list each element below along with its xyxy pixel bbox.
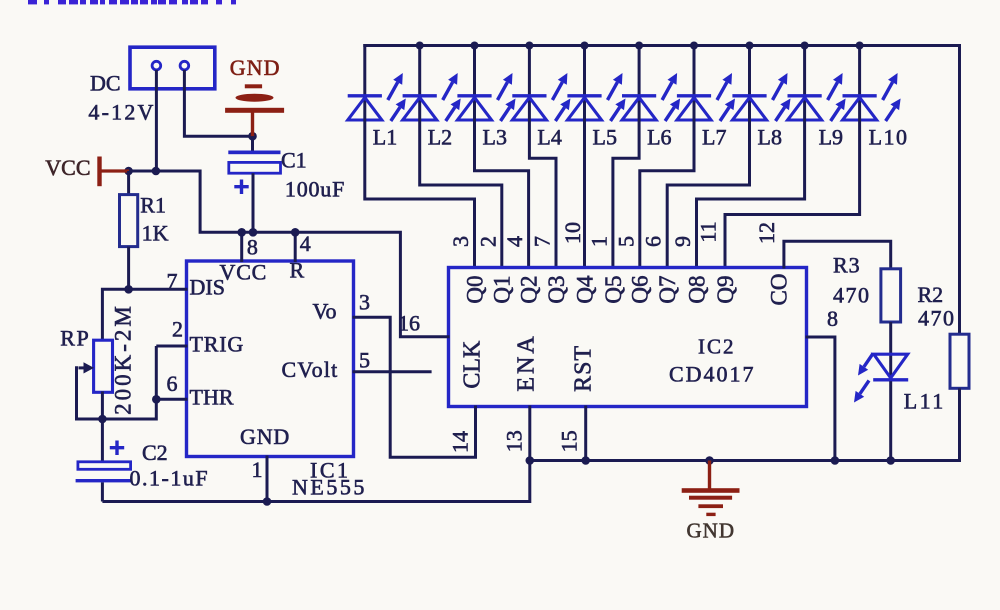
label THR (pin 6) <box>190 385 234 410</box>
junction dot RP bottom <box>98 415 107 424</box>
pin number 1 label (Q5) <box>586 236 611 247</box>
pin label CLK of IC2 <box>460 340 486 389</box>
svg-text:10: 10 <box>560 222 585 244</box>
label IC1 <box>310 458 351 483</box>
svg-text:L1: L1 <box>373 125 397 150</box>
pin label Q9 of IC2 <box>713 275 738 303</box>
svg-text:5: 5 <box>359 348 370 373</box>
pin label RST of IC2 <box>570 345 596 392</box>
svg-text:L10: L10 <box>869 125 909 150</box>
pin number 4 label (Q2) <box>502 236 527 247</box>
pin number 13 label <box>502 430 527 452</box>
label L10 <box>869 125 909 150</box>
wire R pin 4 of NE555 <box>294 232 297 262</box>
pin label Q0 of IC2 <box>462 275 487 303</box>
label R3 <box>833 253 861 278</box>
svg-text:1K: 1K <box>142 221 169 246</box>
label CVolt (pin 5) <box>282 357 339 382</box>
pin label CO of IC2 <box>766 274 791 306</box>
svg-text:RP: RP <box>60 326 90 351</box>
wire LED L1 column from bus <box>363 44 366 96</box>
wire CVolt pin 5 stub <box>353 370 432 373</box>
resistor R3 <box>881 269 901 322</box>
capacitor C1 <box>228 136 280 232</box>
wire LED L9 column from bus <box>803 44 806 96</box>
pin number 11 label (Q9) <box>696 221 721 242</box>
svg-text:15: 15 <box>557 430 582 452</box>
svg-text:Q2: Q2 <box>516 275 541 303</box>
wire LED L10 column from bus <box>858 44 861 96</box>
junction dot DIS <box>124 285 133 294</box>
wire IC2 pin 8 VSS to ground rail <box>806 337 835 461</box>
pin label Q2 of IC2 <box>516 275 541 303</box>
label C1 <box>281 148 307 173</box>
svg-text:L3: L3 <box>483 125 507 150</box>
svg-text:R: R <box>290 257 305 282</box>
wire DIS junction to RP <box>102 289 128 339</box>
label L9 <box>819 125 843 150</box>
connector DC input <box>130 47 215 89</box>
label L5 <box>593 125 617 150</box>
wire DC right pin to GND node <box>184 70 252 136</box>
wire LED L8 to IC2 pin 6 <box>667 119 749 269</box>
pin number 3 label <box>359 290 370 315</box>
label R (pin 4 of NE555) <box>290 257 305 282</box>
svg-text:Q9: Q9 <box>713 275 738 303</box>
svg-text:RST: RST <box>570 345 596 392</box>
wire VCC rail to NE555 and CD4017 pin 16 <box>129 171 450 337</box>
svg-text:CLK: CLK <box>460 340 486 389</box>
svg-text:NE555: NE555 <box>292 475 367 500</box>
svg-text:GND: GND <box>687 519 736 543</box>
LED L6 <box>622 73 680 121</box>
potentiometer RP <box>77 340 113 419</box>
svg-text:470: 470 <box>833 283 871 308</box>
label R1 <box>140 193 166 218</box>
pin label Q1 of IC2 <box>490 275 515 303</box>
label 4-12V <box>88 100 155 125</box>
wire THR pin 6 <box>156 398 187 401</box>
wire R2 to ground rail <box>958 388 961 462</box>
svg-text:Q8: Q8 <box>684 275 709 303</box>
svg-text:L7: L7 <box>702 125 726 150</box>
label GND (top) <box>230 55 281 80</box>
label DIS (pin 7) <box>190 275 225 300</box>
svg-text:CD4017: CD4017 <box>669 362 756 387</box>
pin number 3 label (Q0) <box>448 236 473 247</box>
svg-text:Q4: Q4 <box>572 275 597 304</box>
wire LED L6 to IC2 pin 1 <box>613 119 639 269</box>
label 1K <box>142 221 169 246</box>
svg-text:9: 9 <box>670 236 695 247</box>
pin number 16 label (IC2 VDD) <box>398 311 420 336</box>
pin label Q6 of IC2 <box>628 275 653 303</box>
resistor R2 <box>950 334 969 388</box>
label L7 <box>702 125 726 150</box>
pin number 7 label (Q3) <box>530 236 555 247</box>
svg-text:4-12V: 4-12V <box>88 100 155 125</box>
label RP <box>60 326 90 351</box>
pin label Q4 of IC2 <box>572 275 597 304</box>
label VCC (pin 8 of NE555) <box>220 260 268 285</box>
svg-text:L11: L11 <box>904 389 946 414</box>
pin number 10 label (Q4) <box>560 222 585 244</box>
svg-text:ENA: ENA <box>514 333 540 391</box>
pin number 5 label <box>359 348 370 373</box>
pin number 2 label <box>172 317 183 342</box>
svg-text:2: 2 <box>475 236 500 247</box>
wire LED L3 column from bus <box>473 44 476 96</box>
svg-text:470: 470 <box>918 306 956 331</box>
wire RST pin 15 to ground rail <box>584 406 587 461</box>
label NE555 <box>292 475 367 500</box>
LED L4 <box>512 73 570 121</box>
wire DC left pin to VCC rail <box>155 70 158 171</box>
svg-text:Q1: Q1 <box>490 275 515 303</box>
svg-text:VCC: VCC <box>45 155 90 180</box>
pin number 14 label <box>448 431 473 453</box>
LED L7 <box>677 73 735 121</box>
pin number 2 label (Q1) <box>475 236 500 247</box>
svg-text:C2: C2 <box>142 440 168 465</box>
label R2 <box>918 282 944 307</box>
wire Vo pin 3 to CLK pin 14 <box>353 317 476 457</box>
junction dots on VCC rail <box>124 167 299 237</box>
svg-text:L5: L5 <box>593 125 617 150</box>
wire GND pin 1 to ground line <box>266 456 269 502</box>
svg-text:C1: C1 <box>281 148 307 173</box>
svg-text:VCC: VCC <box>220 260 268 285</box>
wire LED L3 to IC2 pin 4 <box>475 119 529 269</box>
svg-text:DIS: DIS <box>190 275 225 300</box>
ground symbol GND (top) <box>225 84 284 136</box>
label DC <box>90 70 121 95</box>
LED L1 <box>348 73 406 121</box>
svg-text:7: 7 <box>167 269 178 294</box>
wire ENA pin 13 to ground rail <box>528 406 531 461</box>
label Vo (pin 3) <box>313 299 337 324</box>
wire top LED bus <box>363 44 959 47</box>
label C2 <box>142 440 168 465</box>
LED L3 <box>457 73 515 121</box>
label GND (pin 1) <box>240 424 290 449</box>
wire LED L2 to IC2 pin 2 <box>420 119 502 269</box>
svg-text:IC2: IC2 <box>698 335 736 359</box>
svg-text:Q3: Q3 <box>544 275 569 303</box>
LED L10 <box>843 73 901 121</box>
LED L11 <box>854 354 908 403</box>
pin number 6 label <box>167 371 178 396</box>
svg-text:GND: GND <box>240 424 290 449</box>
svg-text:12: 12 <box>754 222 779 244</box>
svg-text:2: 2 <box>172 317 183 342</box>
svg-text:200K-2M: 200K-2M <box>110 303 135 415</box>
wire ground rail <box>530 459 960 462</box>
pin label ENA of IC2 <box>514 333 540 391</box>
pin label Q8 of IC2 <box>684 275 709 303</box>
wire LED L5 to IC2 pin 10 <box>583 119 586 269</box>
svg-text:6: 6 <box>641 236 666 247</box>
wire LED L9 to IC2 pin 9 <box>697 119 805 269</box>
svg-text:L9: L9 <box>819 125 843 150</box>
svg-text:L8: L8 <box>758 125 782 150</box>
wire VCC pin 8 of NE555 <box>240 232 243 262</box>
label L3 <box>483 125 507 150</box>
svg-text:L6: L6 <box>647 125 671 150</box>
LED L2 <box>403 73 461 121</box>
svg-text:7: 7 <box>530 236 555 247</box>
wire LED L10 to IC2 pin 11 <box>725 119 860 269</box>
pin number 15 label <box>557 430 582 452</box>
pin label Q3 of IC2 <box>544 275 569 303</box>
label 470 (R3) <box>833 283 871 308</box>
svg-text:Q6: Q6 <box>628 275 653 303</box>
svg-text:5: 5 <box>613 236 638 247</box>
svg-text:L2: L2 <box>428 125 452 150</box>
label 200K-2M <box>110 303 135 415</box>
svg-text:CVolt: CVolt <box>282 357 339 382</box>
pin label Q5 of IC2 <box>601 275 626 303</box>
capacitor C2 <box>76 419 131 502</box>
pin number 8 label (IC2) <box>827 306 838 331</box>
wire LED L5 column from bus <box>583 44 586 96</box>
svg-text:11: 11 <box>696 221 721 242</box>
terminal VCC <box>97 157 129 187</box>
svg-text:Vo: Vo <box>313 299 337 324</box>
IC U2 CD4017 box <box>449 268 807 407</box>
label 100uF <box>285 177 345 202</box>
wire CO pin 12 to R3 <box>784 241 891 268</box>
IC U1 NE555 box <box>187 261 354 457</box>
pin number 9 label (Q8) <box>670 236 695 247</box>
label IC2 <box>698 335 736 359</box>
svg-text:4: 4 <box>502 236 527 247</box>
pin label Q7 of IC2 <box>655 275 680 303</box>
wire L11 to ground rail <box>889 381 892 460</box>
svg-text:100uF: 100uF <box>285 177 345 202</box>
pin number 4 label <box>300 231 311 256</box>
wire LED L1 to IC2 pin 3 <box>365 119 475 269</box>
resistor R1 <box>120 171 138 289</box>
wire LED L2 column from bus <box>418 44 421 96</box>
pin number 8 label <box>247 234 258 259</box>
label 0.1-1uF <box>130 466 210 491</box>
label 470 (R2) <box>918 306 956 331</box>
svg-text:6: 6 <box>167 371 178 396</box>
label L4 <box>537 125 561 150</box>
svg-text:1: 1 <box>252 457 263 482</box>
svg-text:L4: L4 <box>537 125 561 150</box>
wire TRIG pin 2 <box>156 345 187 348</box>
svg-text:1: 1 <box>586 236 611 247</box>
svg-text:8: 8 <box>247 234 258 259</box>
label VCC (net) <box>45 155 90 180</box>
pin number 12 label <box>754 222 779 244</box>
label L8 <box>758 125 782 150</box>
svg-text:14: 14 <box>448 431 473 453</box>
wire LED L7 to IC2 pin 5 <box>640 119 694 269</box>
svg-text:4: 4 <box>300 231 311 256</box>
pin number 7 label <box>167 269 178 294</box>
svg-text:Q5: Q5 <box>601 275 626 303</box>
LED L5 <box>567 73 625 121</box>
junction dots on ground rail <box>526 456 896 465</box>
svg-text:R3: R3 <box>833 253 861 278</box>
ground symbol GND (bottom) <box>682 461 740 517</box>
wire LED L4 to IC2 pin 7 <box>529 119 556 269</box>
label GND (bottom) <box>687 519 736 543</box>
wire TRIG-THR junction to RP <box>102 346 156 419</box>
svg-text:THR: THR <box>190 385 234 410</box>
svg-text:TRIG: TRIG <box>190 331 245 356</box>
clipped title text fragments <box>28 0 236 4</box>
wire LED L7 column from bus <box>693 44 696 96</box>
label L2 <box>428 125 452 150</box>
junction dot pin 1 <box>263 497 272 506</box>
wire LED L4 column from bus <box>528 44 531 96</box>
LED L8 <box>732 73 790 121</box>
pin number 1 label <box>252 457 263 482</box>
svg-text:R1: R1 <box>140 193 166 218</box>
LED L9 <box>788 73 846 121</box>
svg-text:3: 3 <box>359 290 370 315</box>
wire LED L8 column from bus <box>748 44 751 96</box>
svg-text:CO: CO <box>766 274 791 306</box>
wire ground link line <box>102 461 529 502</box>
wire R3 to LED L11 <box>889 322 892 355</box>
svg-text:13: 13 <box>502 430 527 452</box>
svg-text:0.1-1uF: 0.1-1uF <box>130 466 210 491</box>
junction dot THR <box>152 395 161 404</box>
svg-text:3: 3 <box>448 236 473 247</box>
svg-text:GND: GND <box>230 55 281 80</box>
label L6 <box>647 125 671 150</box>
wire LED L6 column from bus <box>638 44 641 96</box>
junction dot GND node <box>248 132 257 141</box>
svg-text:DC: DC <box>90 70 121 95</box>
svg-text:R2: R2 <box>918 282 944 307</box>
svg-text:8: 8 <box>827 306 838 331</box>
wire DIS pin 7 <box>129 288 188 291</box>
pin number 6 label (Q7) <box>641 236 666 247</box>
svg-text:Q0: Q0 <box>462 275 487 303</box>
pin number 5 label (Q6) <box>613 236 638 247</box>
wire bus to R2 <box>958 46 960 335</box>
svg-text:Q7: Q7 <box>655 275 680 303</box>
junction dots on LED bus <box>416 42 864 50</box>
label L11 <box>904 389 946 414</box>
label TRIG (pin 2) <box>190 331 245 356</box>
label CD4017 <box>669 362 756 387</box>
label L1 <box>373 125 397 150</box>
